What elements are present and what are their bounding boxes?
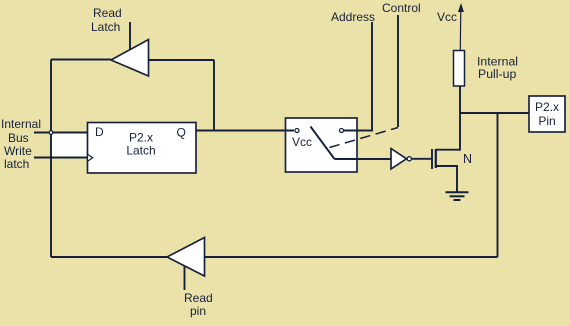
wire: Q output to switch left contact <box>196 130 294 132</box>
wire: inverter output to gate <box>412 158 432 160</box>
drain connection <box>436 113 460 150</box>
svg-text:N: N <box>463 152 472 166</box>
switch arm <box>311 127 335 160</box>
port P2.x Pin box <box>529 96 565 132</box>
wire: control line <box>397 15 399 127</box>
svg-text:P2.x: P2.x <box>535 100 559 114</box>
wire: read-pin leader line <box>184 266 186 291</box>
buffer read pin (pointing left) <box>167 238 205 277</box>
wire: read-latch branch vertical down to Q line <box>213 60 215 131</box>
svg-text:Latch: Latch <box>126 144 155 158</box>
svg-text:D: D <box>95 125 104 139</box>
svg-text:Address: Address <box>331 10 375 24</box>
channel bar <box>435 149 437 168</box>
wire: left vertical rail <box>50 60 52 258</box>
wire: write latch line <box>34 157 88 159</box>
gate bar <box>431 149 433 169</box>
svg-text:pin: pin <box>190 304 206 318</box>
svg-text:Bus: Bus <box>8 131 29 145</box>
buffer read latch (tri-state, pointing left) <box>111 40 149 77</box>
ground <box>446 192 469 200</box>
bus white region between Internal Bus and Write latch wires <box>51 133 88 158</box>
svg-text:Write: Write <box>4 144 32 158</box>
switch right contact <box>340 129 344 133</box>
latch clock input triangle <box>88 154 93 161</box>
wire: pull-up to node <box>459 86 461 113</box>
wire: address line <box>344 22 372 131</box>
wire: read-latch enable leader line <box>129 22 131 50</box>
wire: top-left horizontal to read-latch buffer output <box>51 59 111 61</box>
svg-text:Control: Control <box>382 1 421 15</box>
resistor R1 internal pull-up <box>454 51 465 87</box>
svg-text:Pull-up: Pull-up <box>478 67 516 81</box>
transistor Q1 N-channel MOSFET <box>432 113 460 192</box>
node: internal bus junction (open circle) <box>49 131 53 135</box>
wire: bottom read-pin line left segment <box>51 256 167 258</box>
wire: pin branch down to read-pin line <box>497 113 499 257</box>
svg-text:latch: latch <box>4 157 29 171</box>
svg-text:Vcc: Vcc <box>437 10 457 24</box>
svg-text:Vcc: Vcc <box>292 135 312 149</box>
wire: node to P2.x pin box <box>460 112 529 114</box>
wire: switch output to inverter <box>335 158 392 160</box>
power Vcc arrow <box>459 7 462 51</box>
svg-text:Read: Read <box>184 291 213 305</box>
svg-text:Pin: Pin <box>538 114 555 128</box>
wire: bottom read-pin line right segment <box>205 256 498 258</box>
inverter bubble <box>407 157 411 161</box>
svg-text:Q: Q <box>177 126 186 140</box>
svg-text:P2.x: P2.x <box>129 131 153 145</box>
wire: internal bus to D input <box>34 132 88 134</box>
source connection <box>436 166 457 192</box>
dashed control link to switch arm <box>330 128 399 148</box>
switch box (mux) <box>286 118 358 172</box>
latch U1: P2.x Latch box <box>88 123 197 174</box>
inverter U2 <box>391 149 407 170</box>
wire: read-latch input horizontal <box>149 59 215 61</box>
switch left contact <box>295 129 299 133</box>
svg-text:Latch: Latch <box>91 20 120 34</box>
svg-text:Read: Read <box>93 6 122 20</box>
svg-text:Internal: Internal <box>1 117 41 131</box>
